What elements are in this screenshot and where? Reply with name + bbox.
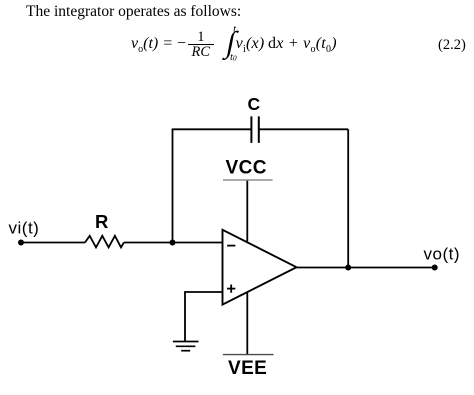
label VCC xyxy=(226,157,267,178)
op-amp minus pin mark xyxy=(227,245,235,247)
wire VCC vertical xyxy=(246,180,248,241)
VEE rail xyxy=(223,354,274,356)
VCC rail xyxy=(223,179,273,181)
wire feedback top right segment xyxy=(259,128,348,130)
resistor R xyxy=(85,236,124,248)
wire input to resistor xyxy=(21,242,86,244)
wire output xyxy=(297,267,435,269)
wire feedback left vertical xyxy=(172,129,174,242)
node A junction dot (feedback tap) xyxy=(170,240,176,246)
op-amp U1 xyxy=(223,230,297,305)
wire VEE vertical xyxy=(246,293,248,355)
sentence xyxy=(26,3,241,21)
label VEE xyxy=(228,358,267,379)
capacitor C xyxy=(251,116,258,142)
svg-text:vi(t): vi(t) xyxy=(9,219,40,238)
node B output junction dot xyxy=(345,265,351,271)
wire resistor to op-amp inverting input xyxy=(124,242,223,244)
wire non-inverting input xyxy=(185,292,223,341)
node vo(t) output terminal dot xyxy=(432,265,438,271)
svg-text:vo(t): vo(t) xyxy=(424,244,461,263)
equation 2.2 xyxy=(131,26,337,64)
wire feedback right vertical xyxy=(347,129,349,267)
label R xyxy=(95,211,108,232)
svg-text:C: C xyxy=(248,94,261,114)
node vi(t) input terminal dot xyxy=(18,240,24,246)
equation number (2.2) xyxy=(438,37,466,54)
svg-text:VEE: VEE xyxy=(228,358,267,379)
ground xyxy=(173,342,199,351)
svg-text:VCC: VCC xyxy=(226,157,267,178)
svg-text:R: R xyxy=(95,211,108,232)
node vi(t) label xyxy=(9,219,40,238)
wire feedback top left segment xyxy=(172,128,251,130)
op-amp plus pin mark xyxy=(227,285,235,293)
node vo(t) label xyxy=(424,244,461,263)
label C xyxy=(248,94,261,114)
